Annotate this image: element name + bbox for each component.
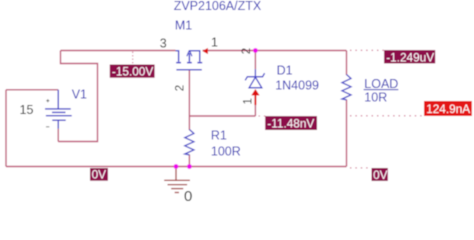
wire: left vertical rail <box>5 90 7 167</box>
voltage label 0V right <box>372 168 388 181</box>
svg-text:-11.48nV: -11.48nV <box>267 117 314 131</box>
svg-text:0V: 0V <box>373 168 388 182</box>
wire: LOAD bottom lead to rail <box>346 100 348 167</box>
svg-text:1: 1 <box>211 35 218 49</box>
svg-text:1: 1 <box>243 98 255 104</box>
svg-text:124.9nA: 124.9nA <box>426 102 470 116</box>
svg-text:1N4099: 1N4099 <box>275 79 319 93</box>
wire: LOAD top lead <box>346 51 348 76</box>
svg-text:-1.249uV: -1.249uV <box>386 50 434 64</box>
svg-text:2: 2 <box>241 48 253 54</box>
zener diode D1 <box>245 69 264 88</box>
wire: D1 cathode to top net <box>254 51 256 70</box>
probe leader dotted to 124.9nA <box>350 115 423 117</box>
svg-text:10R: 10R <box>364 91 387 105</box>
M1 bulk arrowhead (blue, up) <box>187 50 192 56</box>
probe leader dotted to -11.48nV <box>259 115 267 117</box>
node junction dot at output node <box>253 48 258 53</box>
wire: top net from gate step to MOSFET pin 3 <box>61 50 176 52</box>
svg-text:V1: V1 <box>72 87 87 101</box>
svg-text:0: 0 <box>184 188 192 202</box>
wire: R1 bottom lead to rail <box>188 155 190 167</box>
voltage label 0V left <box>90 168 108 181</box>
voltage label -1.249uV <box>384 50 435 63</box>
svg-text:R1: R1 <box>211 129 227 143</box>
wire: bottom 0V rail <box>6 166 347 168</box>
svg-text:-15.00V: -15.00V <box>112 64 153 78</box>
voltage label -11.48nV <box>265 116 317 130</box>
svg-text:100R: 100R <box>211 144 241 158</box>
wire: node at pin2 lead across to D1 anode <box>189 115 255 117</box>
node junction dot at R1 bottom <box>187 164 192 169</box>
svg-text:0V: 0V <box>92 168 107 182</box>
node junction dot at ground tap <box>174 164 179 169</box>
resistor R1 <box>185 130 194 155</box>
probe leader dotted to -1.249uV <box>350 49 384 51</box>
probe leader dotted to 0V right <box>350 167 371 169</box>
wire: D1 anode stub <box>254 105 256 117</box>
wire: battery bottom red stub <box>57 129 59 142</box>
svg-text:D1: D1 <box>277 64 293 78</box>
svg-text:3: 3 <box>160 36 167 50</box>
svg-text:LOAD: LOAD <box>364 77 398 91</box>
ground <box>164 167 190 193</box>
probe leader dotted to -15.00V <box>132 52 134 64</box>
current label 124.9nA <box>424 101 472 116</box>
svg-text:ZVP2106A/ZTX: ZVP2106A/ZTX <box>174 0 262 13</box>
battery minus mark <box>46 126 49 128</box>
M1 channel contact feet <box>176 62 202 64</box>
wire: battery top wire to left rail <box>6 89 58 91</box>
svg-text:M1: M1 <box>175 19 192 33</box>
wire: left step down from top net to battery-negative riser <box>58 51 97 142</box>
battery plus mark <box>46 99 49 102</box>
D1 pin1 red arrow pointing up <box>251 89 259 95</box>
M1 pin1 red arrowhead pointing left <box>202 48 208 54</box>
svg-text:15: 15 <box>20 103 34 117</box>
battery V1 <box>45 90 72 129</box>
wire: MOSFET pin 1 to output node and LOAD top <box>203 50 347 52</box>
transistor M1 (P-channel MOSFET body) <box>176 51 202 70</box>
wire: MOSFET pin 2 gate lead down to R1 <box>188 70 190 130</box>
svg-text:2: 2 <box>175 85 187 91</box>
voltage label -15.00V <box>110 65 155 78</box>
resistor LOAD <box>342 75 351 100</box>
